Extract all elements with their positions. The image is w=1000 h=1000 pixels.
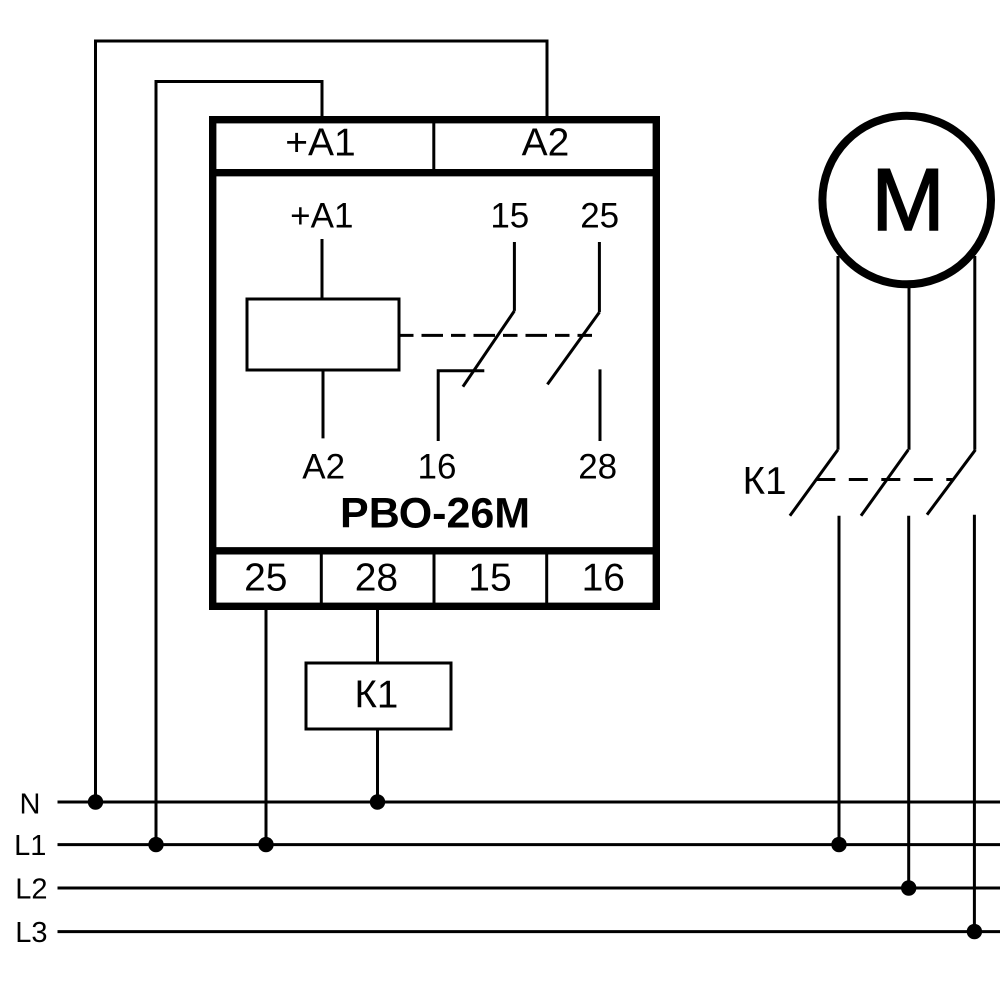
svg-text:16: 16	[418, 447, 457, 486]
svg-text:К1: К1	[743, 460, 787, 503]
svg-text:L2: L2	[15, 873, 47, 905]
svg-text:L3: L3	[15, 917, 47, 949]
svg-text:А2: А2	[522, 121, 570, 164]
svg-text:L1: L1	[14, 830, 46, 862]
svg-text:25: 25	[244, 556, 287, 599]
svg-text:28: 28	[355, 556, 398, 599]
svg-text:25: 25	[580, 197, 619, 236]
svg-text:N: N	[20, 788, 41, 820]
svg-text:16: 16	[582, 556, 625, 599]
svg-text:РВО-26М: РВО-26М	[340, 490, 530, 538]
svg-text:+А1: +А1	[290, 197, 353, 236]
svg-text:15: 15	[468, 556, 511, 599]
svg-text:К1: К1	[354, 674, 398, 717]
svg-text:М: М	[871, 150, 944, 249]
svg-text:+А1: +А1	[285, 121, 355, 164]
svg-text:А2: А2	[302, 447, 345, 486]
svg-text:28: 28	[578, 447, 617, 486]
svg-text:15: 15	[490, 197, 529, 236]
